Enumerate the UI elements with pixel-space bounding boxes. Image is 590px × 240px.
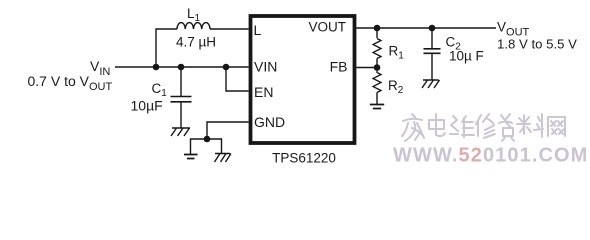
- wire FB pin: [357, 67, 378, 69]
- wire C1 branch down: [180, 67, 182, 96]
- svg-text:FB: FB: [330, 59, 348, 75]
- svg-text:WWW.520101.COM: WWW.520101.COM: [393, 145, 588, 167]
- svg-text:VOUT: VOUT: [308, 20, 346, 35]
- capacitor C2 plates: [424, 49, 441, 54]
- IC U1 TPS61220 box: [251, 16, 355, 143]
- char 料: [517, 114, 543, 137]
- node EN/VIN: [223, 64, 230, 71]
- wire C2 branch down: [431, 28, 433, 49]
- watermark chinese text 家电维修资料网: [402, 114, 565, 141]
- char 家: [402, 114, 424, 141]
- wire VOUT rail: [357, 27, 497, 29]
- junction node dots: [153, 25, 436, 143]
- svg-text:4.7 µH: 4.7 µH: [176, 35, 216, 50]
- wire R1 bottom to FB node: [376, 59, 378, 68]
- ground chassis right: [215, 154, 232, 163]
- wire GND pin: [207, 122, 249, 139]
- wire VIN input rail: [115, 66, 249, 68]
- node C1/VIN: [178, 64, 185, 71]
- ground chassis under C2: [422, 80, 440, 88]
- ground earth left: [184, 155, 198, 159]
- svg-text:TPS61220: TPS61220: [272, 151, 336, 166]
- svg-text:L: L: [254, 22, 262, 38]
- node VOUT/C2: [429, 25, 436, 32]
- char 维: [450, 116, 474, 137]
- wire R2 to ground: [376, 93, 378, 105]
- char 资: [499, 114, 514, 141]
- wire R1 top: [376, 28, 378, 38]
- wire inductor to L pin: [210, 28, 249, 30]
- svg-text:EN: EN: [254, 84, 273, 100]
- capacitor C1 plates: [171, 97, 192, 102]
- node GND junction: [204, 136, 211, 143]
- char 电: [429, 114, 445, 136]
- inductor L1 coil: [177, 23, 210, 29]
- wire ground left branch: [191, 139, 208, 154]
- svg-text:10µ F: 10µ F: [449, 49, 484, 64]
- node VOUT/R1: [374, 25, 381, 32]
- ground chassis under C1: [171, 128, 190, 136]
- svg-text:1.8 V to 5.5 V: 1.8 V to 5.5 V: [497, 37, 577, 52]
- node FB/R1/R2: [374, 64, 381, 71]
- wire C1 to ground: [180, 102, 182, 128]
- wire EN tie to VIN: [226, 67, 249, 91]
- svg-text:GND: GND: [254, 114, 285, 130]
- node inductor/VIN: [153, 64, 160, 71]
- wire ground right branch: [207, 139, 222, 153]
- char 网: [548, 117, 565, 136]
- char 修: [476, 114, 495, 138]
- svg-text:10µF: 10µF: [131, 98, 163, 114]
- resistor R2 zigzag: [373, 68, 381, 93]
- wire C2 to ground: [431, 53, 433, 79]
- ground earth R2: [370, 105, 384, 109]
- resistor R1 zigzag: [373, 39, 381, 59]
- svg-text:VIN: VIN: [254, 59, 277, 75]
- wire inductor branch up: [156, 29, 177, 67]
